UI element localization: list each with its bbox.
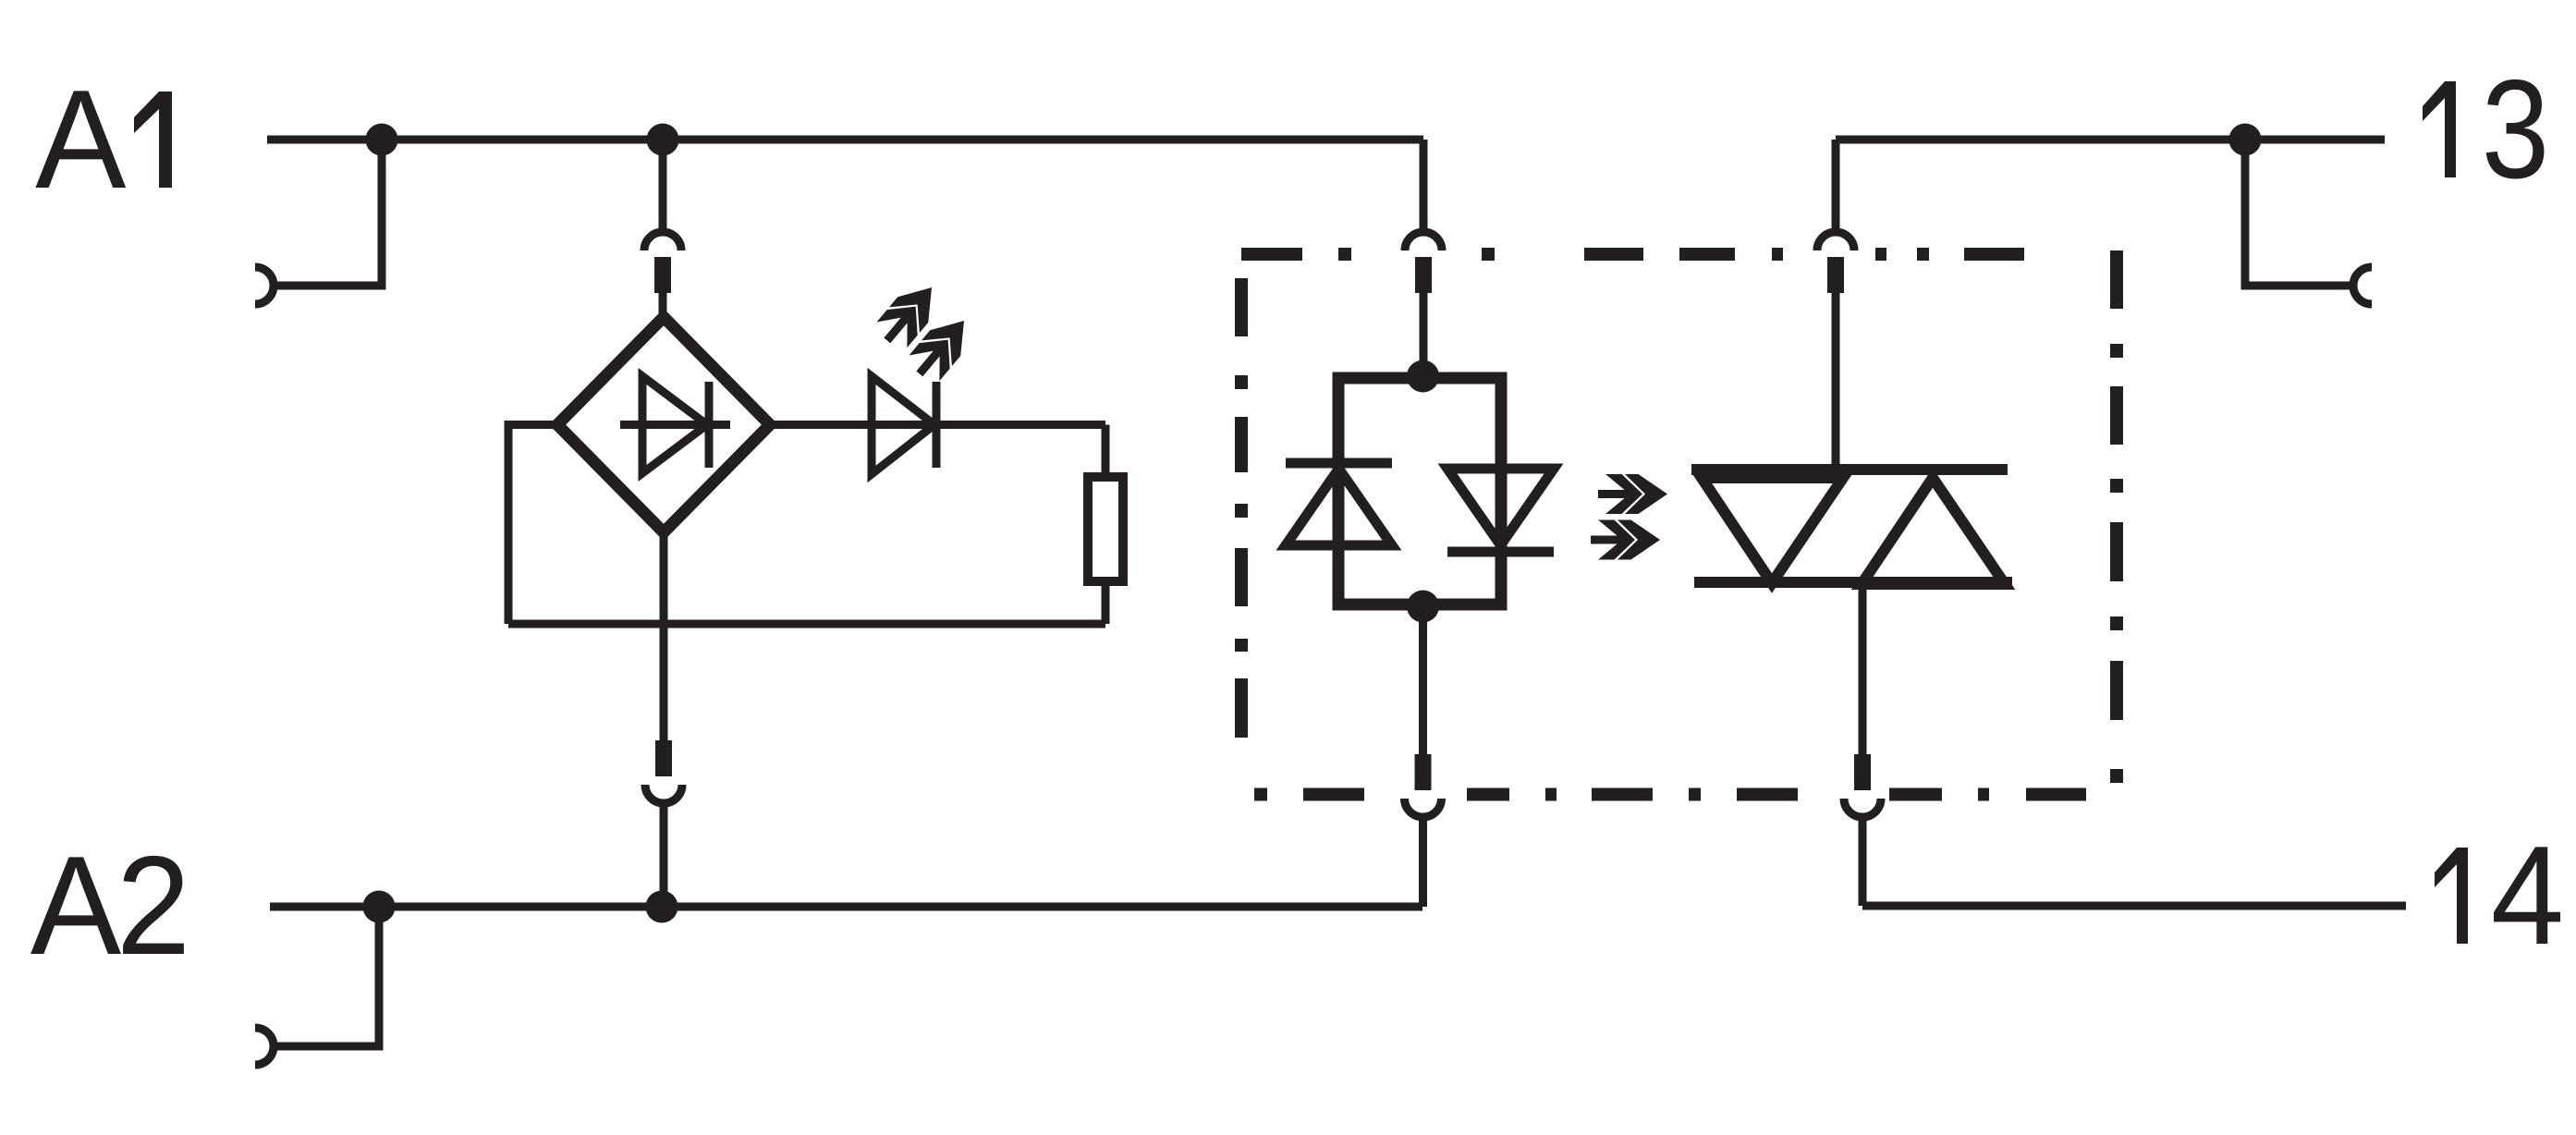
- wire bridge bottom vertex down: [660, 532, 668, 740]
- clamp contact arc (triac top): [1817, 232, 1854, 250]
- wire A2 stub down-left: [274, 907, 379, 1046]
- node junction 13-stub: [2229, 124, 2262, 156]
- suppressor parallel-diode frame: [1338, 378, 1501, 604]
- optocoupler module boundary bottom edge: [1254, 788, 2086, 801]
- triac top electrode line: [1691, 464, 2008, 475]
- wire A1 rail: [267, 136, 1423, 144]
- node junction suppressor top: [1407, 360, 1439, 393]
- socket hook A2: [255, 1028, 274, 1065]
- socket hook A1: [255, 267, 274, 304]
- clamp contact arc (suppressor bottom): [1405, 799, 1442, 817]
- zener diode left cathode bar: [1286, 458, 1392, 469]
- clamp contact arc (bridge top): [644, 232, 681, 250]
- wire 14 rail: [1862, 902, 2406, 910]
- svg-text:3: 3: [2482, 51, 2550, 208]
- clamp contact arc (triac bottom): [1844, 799, 1881, 817]
- wire A2 rail: [270, 903, 1422, 911]
- svg-text:2: 2: [116, 828, 190, 984]
- bridge inner diode triangle: [642, 376, 707, 473]
- node junction A1-stub: [366, 124, 398, 156]
- clamp contact arc (bridge bottom): [645, 785, 682, 803]
- clamp pin (suppressor bottom): [1415, 754, 1432, 790]
- wire 13 stub down-right: [2245, 140, 2353, 286]
- zener diode right triangle (pointing down): [1447, 469, 1554, 545]
- wire A1 stub down-left: [274, 140, 382, 286]
- wire down from A1 rail to bridge clamp: [659, 140, 667, 228]
- node junction suppressor bottom: [1407, 591, 1439, 623]
- socket hook 13: [2353, 267, 2372, 304]
- wire 13 rail: [1836, 136, 2385, 144]
- terminal label A2: [31, 826, 190, 984]
- zener diode right cathode bar: [1447, 547, 1554, 557]
- bridge inner diode cathode bar: [705, 382, 714, 468]
- svg-text:4: 4: [2491, 817, 2564, 974]
- wire bridge left vertex to loop: [508, 425, 557, 625]
- LED cathode bar: [933, 382, 941, 468]
- optocoupler module boundary (dash-dot box) top edge: [1241, 250, 2117, 795]
- triac bottom electrode line: [1694, 577, 2012, 588]
- wire clamp to A2 rail: [660, 807, 668, 907]
- wire resistor top lead: [1102, 425, 1110, 478]
- wire clamp down to 14 rail corner: [1859, 821, 1867, 906]
- optocoupler module boundary right edge: [2110, 250, 2123, 783]
- optocoupler light arrow upper: [1598, 474, 1667, 514]
- LED light arrow lower: [904, 308, 979, 386]
- LED light arrow upper: [872, 275, 946, 353]
- wire 13 rail corner down: [1832, 140, 1840, 228]
- terminal label 13: [2423, 51, 2549, 208]
- clamp pin (triac top): [1827, 257, 1844, 293]
- optocoupler module boundary left edge: [1235, 278, 1248, 738]
- wire triac bottom down: [1859, 582, 1867, 754]
- terminal label 14: [2435, 817, 2564, 974]
- node junction bridge-bottom: [646, 891, 678, 923]
- triac right triangle (pointing up): [1862, 478, 2005, 584]
- bridge inner diode axis line: [620, 421, 730, 429]
- wire resistor bottom lead: [1102, 581, 1110, 624]
- wire bridge right vertex to LED and resistor corner: [770, 421, 1105, 429]
- wire loop bottom rail: [508, 620, 1105, 629]
- LED triangle: [872, 376, 934, 474]
- clamp pin (suppressor top): [1415, 257, 1432, 293]
- bridge rectifier diamond: [557, 317, 770, 532]
- optocoupler light arrow lower: [1591, 520, 1660, 560]
- node junction A2-stub: [363, 891, 396, 923]
- svg-text:A: A: [35, 60, 126, 218]
- clamp pin (bridge bottom): [655, 740, 672, 776]
- zener diode left triangle (pointing up): [1286, 469, 1392, 545]
- wire clamp to bridge: [659, 293, 667, 317]
- node junction bridge-top: [647, 124, 679, 156]
- wire clamp down to A2 rail corner: [1419, 821, 1427, 907]
- terminal label A1: [35, 60, 172, 218]
- wire clamp to suppressor: [1420, 293, 1428, 376]
- clamp pin (bridge top): [654, 257, 671, 293]
- clamp pin (triac bottom): [1854, 754, 1871, 790]
- resistor R: [1088, 477, 1123, 581]
- clamp contact arc (suppressor top): [1405, 232, 1442, 250]
- triac left triangle (pointing down): [1702, 478, 1843, 583]
- svg-text:A: A: [31, 826, 121, 984]
- wire suppressor bottom down: [1419, 606, 1427, 754]
- wire A1 rail corner down to coil clamp: [1420, 140, 1428, 228]
- wire clamp to triac: [1832, 293, 1840, 470]
